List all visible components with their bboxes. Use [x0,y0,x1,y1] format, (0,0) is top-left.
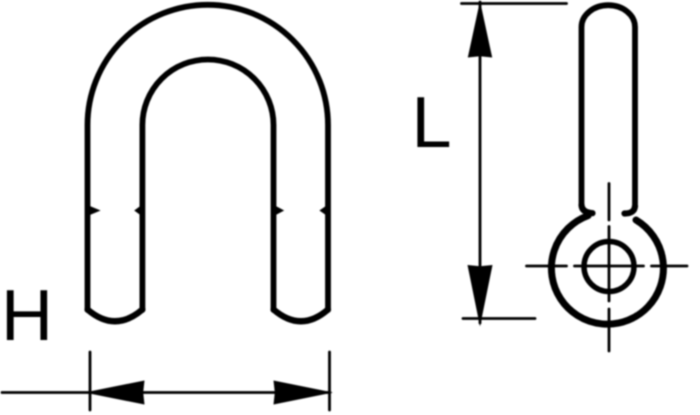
centerline horizontal left segment [527,265,567,268]
eye hole circle [584,242,634,292]
centerline vertical bottom segment [608,309,611,351]
svg-text:H: H [1,276,53,356]
right leg end cap [274,310,329,322]
bow outer contour (front view) [88,5,329,310]
H dimension line [2,391,330,394]
centerline horizontal right segment [652,265,688,268]
tangent tick right leg outer [319,206,326,215]
L dimension line [479,2,482,323]
L dimension arrow down [468,265,493,327]
shank right fillet hook [625,206,636,214]
eye outer circle [551,216,663,325]
shank contour (side view) [582,5,636,204]
bow inner contour (front view) [142,59,273,310]
L dimension arrow up [468,1,492,58]
left leg end cap [88,310,143,322]
centerline vertical top segment [608,184,611,221]
H dimension arrow right [274,381,334,405]
tangent tick right leg inner [276,206,285,215]
svg-text:L: L [412,83,452,163]
tangent tick left leg inner [134,206,140,215]
centerline horizontal middle segment [575,265,644,268]
extension line right of H dimension [328,352,331,410]
tangent tick left leg outer [90,206,101,215]
extension line bottom of L dimension [463,317,535,320]
extension line left of H dimension [89,352,92,410]
H dimension arrow left [85,381,145,405]
centerline vertical middle segment [608,227,611,302]
extension line top of L dimension [462,2,567,5]
shank left fillet hook [582,205,593,213]
